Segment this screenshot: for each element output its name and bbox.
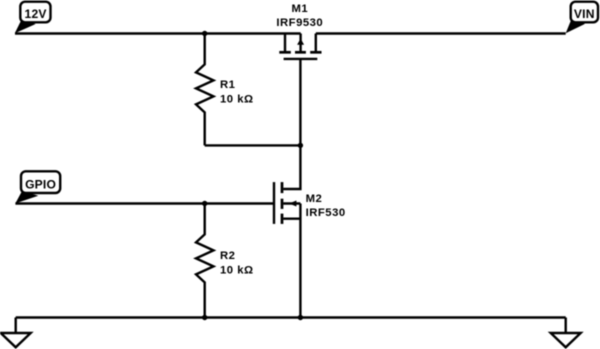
node: M2 source / ground rail (298, 315, 303, 320)
node: GPIO / R2 junction (202, 201, 207, 206)
svg-text:VIN: VIN (574, 7, 595, 21)
wire GPIO to M2 gate (15, 202, 274, 204)
resistor R1 (196, 34, 254, 146)
transistor M2 IRF530 (NMOS) (274, 182, 346, 224)
gate plate (284, 58, 318, 60)
svg-text:R2: R2 (220, 250, 235, 262)
svg-text:M2: M2 (306, 193, 323, 205)
body stub with arrow (299, 34, 301, 53)
svg-text:10 kΩ: 10 kΩ (220, 94, 254, 106)
source stub (283, 217, 300, 219)
svg-text:IRF9530: IRF9530 (276, 17, 323, 29)
wire R1 bottom to M1 gate (205, 144, 301, 146)
channel bars (279, 51, 291, 54)
ground left (1, 318, 31, 348)
svg-text:M1: M1 (291, 3, 308, 15)
wire M2 source to ground rail (299, 204, 301, 318)
svg-text:IRF530: IRF530 (306, 207, 346, 219)
gate plate (273, 182, 275, 224)
wire bottom ground rail (16, 316, 566, 318)
svg-text:10 kΩ: 10 kΩ (220, 265, 254, 277)
svg-text:GPIO: GPIO (25, 177, 56, 191)
wire M1 gate down to M2 drain (283, 59, 300, 189)
net label GPIO (15, 171, 60, 203)
body stub with arrow (283, 202, 300, 204)
ground right (551, 318, 581, 348)
node: R1 / gate junction (298, 143, 303, 148)
channel bars (281, 182, 284, 193)
source stub (315, 34, 317, 53)
svg-text:R1: R1 (220, 79, 235, 91)
resistor R2 (196, 204, 254, 318)
svg-text:12V: 12V (25, 7, 47, 21)
wire top rail left segment (12V to M1 body) (15, 32, 301, 34)
node: R2 / ground rail (202, 315, 207, 320)
drain stub (284, 34, 286, 53)
net label 12V (15, 2, 51, 34)
net label VIN (566, 2, 598, 34)
transistor M1 IRF9530 (PMOS) (276, 3, 323, 59)
wire top rail right segment (M1 source to VIN) (316, 32, 566, 34)
node: 12V rail / R1 junction (202, 31, 207, 36)
